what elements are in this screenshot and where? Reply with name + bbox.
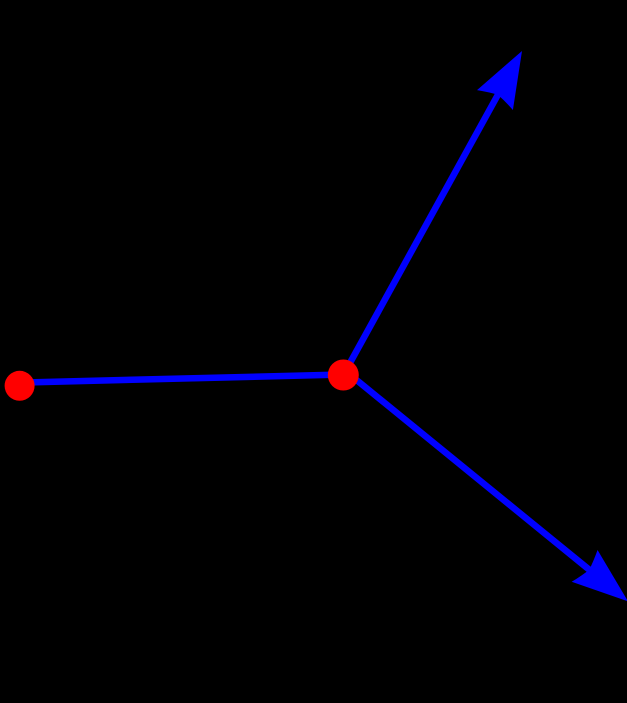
wire rod from left pivot to central node [20, 375, 343, 383]
vector arrow up-right shaft [343, 91, 500, 375]
vector arrow down-right head [572, 550, 627, 601]
vector arrow up-right head [477, 51, 522, 110]
node B central red dot [328, 360, 359, 391]
node A left red pivot dot [5, 371, 35, 401]
vector arrow down-right shaft [345, 371, 592, 573]
